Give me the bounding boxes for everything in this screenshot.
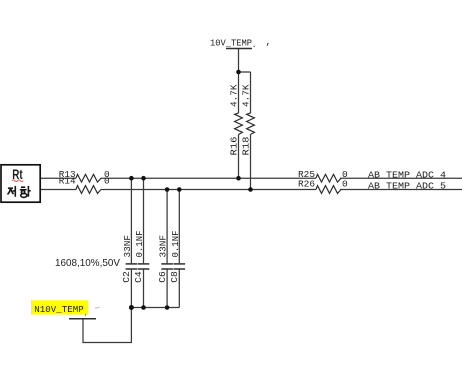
svg-text:1608,10%,50V: 1608,10%,50V xyxy=(55,257,120,269)
svg-text:4.7K: 4.7K xyxy=(241,84,252,107)
svg-text:R16: R16 xyxy=(229,136,240,155)
svg-text:C4: C4 xyxy=(133,271,144,283)
svg-text:0: 0 xyxy=(104,176,110,187)
svg-text:C6: C6 xyxy=(157,271,168,283)
svg-text:.: . xyxy=(83,309,88,318)
svg-text:R18: R18 xyxy=(241,136,252,155)
svg-text:,: , xyxy=(266,36,272,47)
svg-text:AB TEMP ADC 4: AB TEMP ADC 4 xyxy=(368,169,446,180)
svg-text:N10V_TEMP: N10V_TEMP xyxy=(34,304,84,315)
svg-text:4.7K: 4.7K xyxy=(229,84,240,107)
svg-text:33NF: 33NF xyxy=(122,235,133,258)
svg-text:.: . xyxy=(252,41,257,50)
svg-text:0.1NF: 0.1NF xyxy=(170,230,181,257)
svg-text:C2: C2 xyxy=(121,271,132,283)
svg-text:R26: R26 xyxy=(298,179,315,190)
svg-text:0.1NF: 0.1NF xyxy=(134,230,145,257)
svg-text:R14: R14 xyxy=(59,176,76,187)
svg-text:10V_TEMP: 10V_TEMP xyxy=(210,38,252,49)
svg-text:AB TEMP ADC 5: AB TEMP ADC 5 xyxy=(368,180,446,191)
svg-text:C8: C8 xyxy=(169,271,180,283)
svg-text:33NF: 33NF xyxy=(158,235,169,258)
svg-text:0: 0 xyxy=(342,179,348,190)
